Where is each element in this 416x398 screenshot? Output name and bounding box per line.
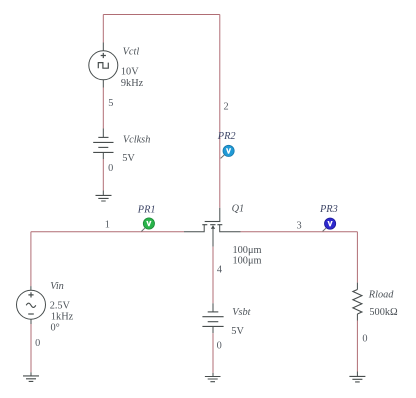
svg-text:Vctl: Vctl xyxy=(123,46,140,57)
node 0 under Vsbt xyxy=(217,341,222,352)
wire Vctl top (node 2 left drop) xyxy=(102,15,104,51)
svg-text:Vclksh: Vclksh xyxy=(123,134,150,145)
value 500kOhm xyxy=(369,307,398,318)
svg-text:9kHz: 9kHz xyxy=(121,78,144,89)
label Vin xyxy=(50,281,64,292)
probe PR2 xyxy=(221,145,235,158)
node 3 xyxy=(297,220,302,231)
wire Vclksh to ground (node 0) xyxy=(102,152,104,195)
value 1kHz xyxy=(51,311,74,322)
label Vsbt xyxy=(232,307,251,318)
svg-text:PR1: PR1 xyxy=(137,205,156,216)
ground under Vclksh xyxy=(96,195,112,201)
svg-text:100μm: 100μm xyxy=(233,255,262,266)
value 10V xyxy=(121,67,139,78)
value 5V Vsbt xyxy=(231,326,244,337)
label PR2 xyxy=(217,131,236,142)
battery Vclksh xyxy=(93,137,113,152)
label Vctl xyxy=(123,46,140,57)
svg-text:0: 0 xyxy=(217,341,222,352)
source Vin AC symbol xyxy=(17,290,46,319)
svg-text:Vsbt: Vsbt xyxy=(232,307,251,318)
node 4 xyxy=(217,264,222,275)
battery Vsbt xyxy=(202,312,223,327)
node 1 xyxy=(105,220,110,231)
svg-text:0: 0 xyxy=(108,163,113,174)
svg-text:PR2: PR2 xyxy=(217,131,236,142)
ground under Vin xyxy=(23,376,39,382)
svg-text:500kΩ: 500kΩ xyxy=(369,307,398,318)
svg-text:100μm: 100μm xyxy=(233,245,262,256)
transistor Q1 xyxy=(184,222,241,247)
svg-text:3: 3 xyxy=(297,220,302,231)
node 2 xyxy=(224,102,229,113)
svg-text:PR3: PR3 xyxy=(319,204,338,215)
svg-text:Vin: Vin xyxy=(50,281,64,292)
svg-text:5V: 5V xyxy=(122,153,135,164)
svg-text:Q1: Q1 xyxy=(232,204,245,215)
node 0 under Vclksh xyxy=(108,163,113,174)
node 0 under Rload xyxy=(362,334,367,345)
node 5 xyxy=(108,98,113,109)
label Q1 xyxy=(232,204,245,215)
value 100um line2 xyxy=(233,255,262,266)
wire top rail node 2 xyxy=(103,14,220,16)
resistor Rload xyxy=(353,290,362,315)
svg-text:10V: 10V xyxy=(121,67,139,78)
source Vctl U-shape symbol xyxy=(89,51,118,80)
label PR3 xyxy=(319,204,338,215)
svg-text:2.5V: 2.5V xyxy=(50,301,71,312)
wire Vsbt to ground xyxy=(212,326,214,376)
value 2.5V xyxy=(50,301,71,312)
svg-text:2: 2 xyxy=(224,102,229,113)
label PR1 xyxy=(137,205,156,216)
svg-text:1: 1 xyxy=(105,220,110,231)
svg-text:1kHz: 1kHz xyxy=(51,311,74,322)
wire Vctl to Vclksh (node 5) xyxy=(102,80,104,138)
svg-text:5: 5 xyxy=(108,98,113,109)
wire Vin top (node 1 corner) xyxy=(30,232,32,291)
value 0deg xyxy=(51,323,60,334)
wire Rload vertical top xyxy=(356,232,358,290)
wire bulk node 4 xyxy=(212,247,214,312)
ground under Vsbt xyxy=(205,377,221,382)
probe PR1 xyxy=(141,218,154,232)
svg-text:0: 0 xyxy=(35,338,40,349)
label Rload xyxy=(368,289,394,300)
node 0 under Vin xyxy=(35,338,40,349)
wire node 1 horizontal xyxy=(31,231,184,233)
value 5V xyxy=(122,153,135,164)
value 100um line1 xyxy=(233,245,262,256)
wire Rload to ground xyxy=(356,314,358,376)
node 3 wire horizontal xyxy=(241,231,358,233)
svg-text:0°: 0° xyxy=(51,323,60,334)
wire Vin to ground xyxy=(30,319,32,376)
probe PR3 xyxy=(323,218,336,231)
label Vclksh xyxy=(123,134,150,145)
value 9kHz xyxy=(121,78,144,89)
ground under Rload xyxy=(349,376,365,382)
svg-text:4: 4 xyxy=(217,264,222,275)
wire drain vertical (node 2) xyxy=(219,15,221,222)
svg-text:0: 0 xyxy=(362,334,367,345)
svg-text:Rload: Rload xyxy=(368,289,394,300)
svg-text:5V: 5V xyxy=(231,326,244,337)
